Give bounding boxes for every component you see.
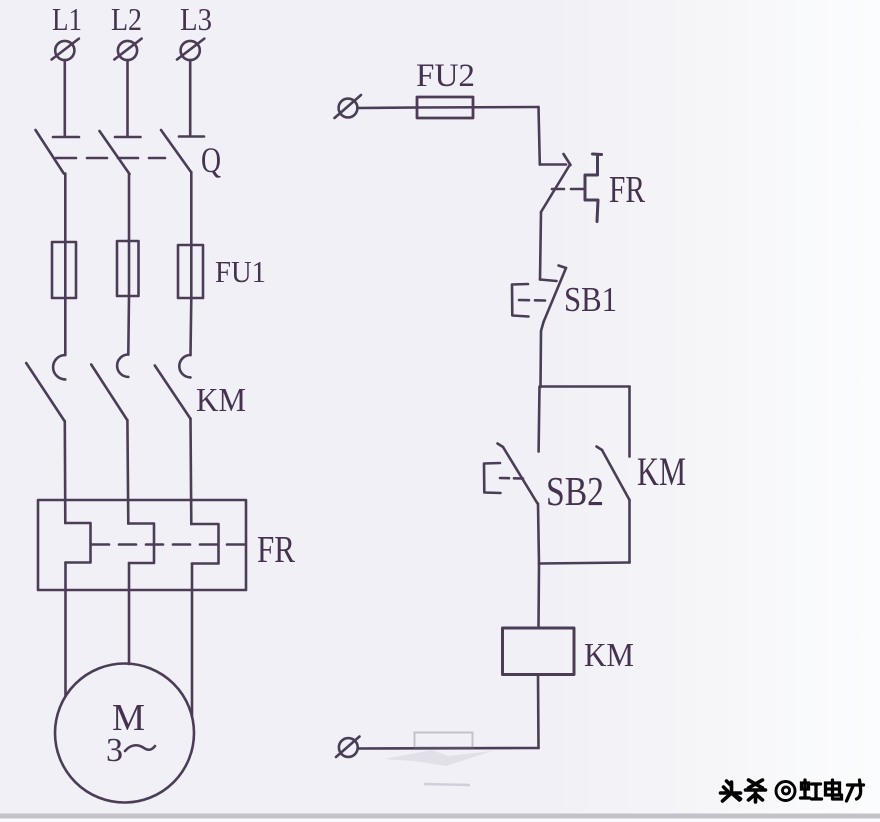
- FR NC contact: [540, 154, 571, 212]
- push button SB2 (NO): [498, 387, 540, 565]
- wire FR to motor 1: [64, 563, 67, 697]
- wire Q to FU1 pole 2: [128, 174, 131, 241]
- svg-text:Q: Q: [201, 140, 221, 180]
- switch Q pole 1: [36, 130, 80, 174]
- thermal relay FR box: [38, 500, 246, 590]
- wire corner down to FR contact: [539, 107, 540, 165]
- terminal control bottom: [336, 737, 360, 758]
- wire L3 to Q: [189, 60, 192, 136]
- terminal L1: [52, 39, 79, 61]
- svg-text:FU1: FU1: [215, 254, 266, 289]
- fuse FU1 pole 2: [117, 241, 139, 296]
- wire fuse interior 1: [64, 242, 67, 298]
- wire KM to FR pole 2: [126, 420, 130, 524]
- wire fuse interior 2: [128, 241, 131, 296]
- wire coil to bottom: [537, 675, 540, 749]
- wire FR to motor 3: [191, 564, 194, 717]
- artifact: erased fuse ghost: [415, 733, 473, 748]
- wire branch right down: [628, 387, 631, 457]
- coil KM: [503, 628, 575, 675]
- terminal L3: [177, 39, 204, 61]
- contactor KM main contact pole 3: [155, 355, 191, 419]
- wire FU1 to KM pole 1: [64, 298, 67, 355]
- wire FU1 to KM pole 3: [189, 298, 192, 355]
- wire terminal to FU2: [357, 106, 417, 109]
- wire FR to motor 2: [128, 563, 131, 664]
- push button SB1 (NC): [540, 266, 566, 388]
- motor M: [55, 664, 194, 803]
- svg-text:KM: KM: [196, 382, 246, 419]
- wire L2 to Q: [126, 60, 129, 136]
- FR linkage (dashed): [92, 543, 246, 546]
- terminal L2: [114, 39, 141, 61]
- wire Q to FU1 pole 3: [190, 172, 193, 245]
- svg-text:L2: L2: [111, 1, 142, 37]
- bottom edge band: [0, 814, 880, 819]
- node junction top of parallel branch: [541, 385, 630, 388]
- wire KM to FR pole 1: [64, 421, 67, 523]
- FR contact linkage dashes: [552, 188, 585, 191]
- tou: [721, 781, 741, 801]
- contactor KM auxiliary contact: [597, 447, 630, 563]
- tiao: [746, 780, 766, 802]
- wire fuse interior 3: [190, 245, 193, 298]
- label 3~: [106, 732, 155, 769]
- SB1 actuator E: [512, 284, 545, 317]
- FR actuator: [585, 154, 602, 222]
- fuse FU1 pole 3: [178, 245, 203, 298]
- svg-text:L3: L3: [180, 1, 212, 37]
- svg-text:3: 3: [106, 732, 123, 769]
- wire Q to FU1 pole 1: [64, 174, 67, 243]
- at sign: [776, 782, 795, 801]
- contactor KM main contact pole 1: [26, 355, 65, 421]
- svg-text:FR: FR: [257, 529, 296, 571]
- svg-text:L1: L1: [52, 1, 82, 37]
- terminal control top: [335, 95, 362, 118]
- FR heater element 3: [191, 524, 218, 564]
- wire L1 to Q: [64, 60, 67, 136]
- li: [847, 780, 864, 801]
- watermark: [721, 780, 766, 802]
- fuse FU2: [417, 97, 473, 118]
- fuse FU1 pole 1: [52, 242, 76, 298]
- node junction bottom of parallel branch: [539, 563, 630, 564]
- switch Q pole 3: [161, 130, 204, 172]
- switch Q linkage (dashed): [56, 157, 165, 160]
- FR heater element 2: [128, 524, 154, 564]
- svg-text:KM: KM: [584, 637, 634, 674]
- wire junction to coil: [537, 564, 540, 629]
- hong: [801, 780, 822, 799]
- svg-text:SB2: SB2: [546, 468, 604, 514]
- wire through FU2 to corner: [417, 106, 539, 109]
- wire FR contact to SB1: [540, 212, 541, 280]
- FR heater element 1: [65, 523, 90, 563]
- svg-text:KM: KM: [637, 449, 686, 494]
- wire bottom horizontal: [358, 747, 539, 750]
- contactor KM main contact pole 2: [91, 355, 128, 421]
- svg-text:FR: FR: [609, 169, 646, 211]
- svg-text:FU2: FU2: [416, 58, 475, 94]
- wire FU1 to KM pole 2: [127, 296, 130, 355]
- SB2 actuator E: [484, 463, 523, 493]
- switch Q pole 2: [100, 131, 141, 174]
- wire KM to FR pole 3: [189, 419, 192, 524]
- dian: [826, 780, 842, 799]
- svg-text:SB1: SB1: [564, 280, 617, 319]
